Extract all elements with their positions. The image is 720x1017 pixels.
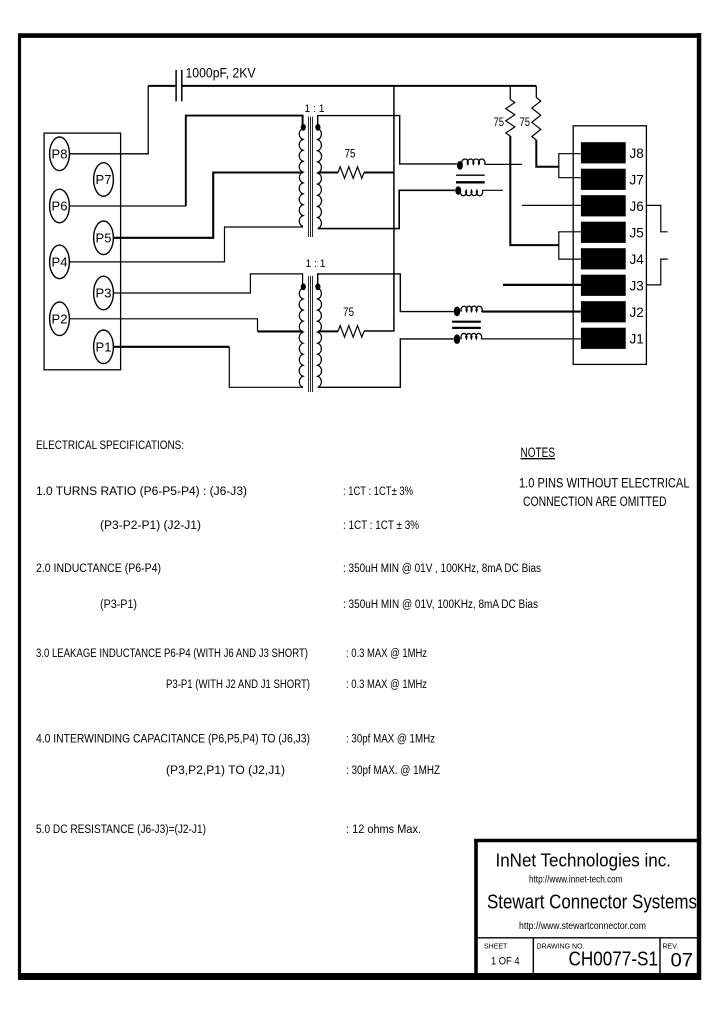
svg-text:P7: P7 bbox=[96, 172, 112, 187]
choke L1 core bbox=[456, 175, 485, 182]
svg-text:: 30pf MAX @ 1MHz: : 30pf MAX @ 1MHz bbox=[346, 734, 435, 746]
wire L2 winding2 out to J1 bbox=[481, 338, 581, 340]
pin P5 bbox=[94, 221, 114, 255]
wire R4 to bracket J8-J7 bbox=[536, 140, 559, 167]
wire R4 top lead bbox=[535, 86, 537, 98]
wire T2 secondary center tap bbox=[318, 330, 338, 332]
wire L1 winding1 out bbox=[485, 163, 522, 165]
svg-text:1.0 PINS WITHOUT ELECTRICAL: 1.0 PINS WITHOUT ELECTRICAL bbox=[519, 476, 690, 491]
pin J1 bbox=[581, 328, 644, 349]
wire R3 to bracket J5-J4 bbox=[510, 136, 559, 245]
svg-text:75: 75 bbox=[494, 115, 505, 129]
connector J box bbox=[573, 126, 646, 365]
svg-text:InNet Technologies inc.: InNet Technologies inc. bbox=[496, 850, 672, 871]
wire P5 to T1 primary center tap bbox=[113, 173, 303, 238]
capacitor C1 1000pF 2KV bbox=[176, 70, 182, 101]
connector P box bbox=[44, 133, 121, 370]
phase dot L1 winding 1 bbox=[457, 161, 463, 170]
transformer T2 bbox=[299, 276, 321, 392]
choke L1 winding 2 bbox=[460, 190, 482, 195]
wire J3 right bracket stub bbox=[646, 259, 667, 285]
pin P3 bbox=[94, 276, 114, 310]
svg-text:4.0 INTERWINDING CAPACITANCE (: 4.0 INTERWINDING CAPACITANCE (P6,P5,P4) … bbox=[36, 734, 310, 746]
svg-text:(P3-P1): (P3-P1) bbox=[100, 599, 137, 611]
wire bracket J5-J4 bbox=[559, 232, 581, 259]
svg-text:(P3-P2-P1) (J2-J1): (P3-P2-P1) (J2-J1) bbox=[100, 520, 201, 532]
wire T1 secondary center tap bbox=[318, 172, 338, 174]
phase dot T1 secondary bbox=[315, 124, 320, 131]
svg-text:75: 75 bbox=[343, 305, 354, 319]
svg-text:P1: P1 bbox=[96, 339, 112, 354]
wire to J3 bbox=[503, 284, 581, 286]
pin P6 bbox=[50, 189, 70, 223]
wire bracket J8-J7 bbox=[559, 154, 581, 178]
svg-text:: 1CT : 1CT± 3%: : 1CT : 1CT± 3% bbox=[343, 486, 413, 498]
pin J8 bbox=[581, 142, 644, 163]
svg-text:(P3,P2,P1) TO (J2,J1): (P3,P2,P1) TO (J2,J1) bbox=[166, 765, 285, 777]
wire P3 to T2 primary top bbox=[113, 274, 302, 293]
wire P4 to T1 primary bottom bbox=[69, 227, 303, 262]
wire L1 winding2 out bbox=[482, 189, 503, 191]
svg-text:http://www.innet-tech.com: http://www.innet-tech.com bbox=[529, 875, 623, 886]
choke L2 core bbox=[452, 322, 481, 328]
svg-text:http://www.stewartconnector.co: http://www.stewartconnector.com bbox=[519, 921, 646, 932]
wire P6 to corner bbox=[69, 205, 186, 207]
pin J5 bbox=[581, 222, 644, 243]
svg-text:: 350uH MIN @ 01V , 100KHz, 8m: : 350uH MIN @ 01V , 100KHz, 8mA DC Bias bbox=[343, 563, 541, 575]
pin P4 bbox=[50, 245, 70, 279]
phase dot T1 primary bbox=[301, 124, 306, 131]
resistor R1 75 (T1 termination) bbox=[338, 167, 364, 179]
svg-text:CH0077-S1: CH0077-S1 bbox=[569, 949, 659, 971]
svg-text:P5: P5 bbox=[96, 230, 112, 245]
pin J6 bbox=[581, 195, 644, 216]
pin J2 bbox=[581, 301, 644, 322]
pin J7 bbox=[581, 169, 644, 190]
choke L2 winding 1 bbox=[461, 306, 482, 311]
svg-text:5.0 DC RESISTANCE (J6-J3)=(J2-: 5.0 DC RESISTANCE (J6-J3)=(J2-J1) bbox=[36, 824, 206, 836]
wire J6 right bracket stub bbox=[646, 205, 667, 231]
pin P7 bbox=[94, 163, 114, 197]
wire P8 to C1 bbox=[69, 86, 148, 154]
svg-text:75: 75 bbox=[345, 147, 356, 161]
svg-text:P8: P8 bbox=[52, 146, 68, 161]
choke L1 winding 1 bbox=[462, 159, 485, 164]
svg-text:3.0 LEAKAGE INDUCTANCE P6-P4 (: 3.0 LEAKAGE INDUCTANCE P6-P4 (WITH J6 AN… bbox=[36, 648, 308, 660]
svg-text:SHEET: SHEET bbox=[484, 944, 508, 951]
wire P1 to corner bbox=[113, 346, 229, 348]
svg-text:J6: J6 bbox=[630, 199, 644, 214]
svg-text:J3: J3 bbox=[630, 278, 644, 293]
svg-text:: 1CT : 1CT ± 3%: : 1CT : 1CT ± 3% bbox=[343, 520, 419, 532]
wire corner to T2 primary bottom bbox=[229, 347, 303, 388]
svg-text:P3-P1 (WITH J2 AND J1 SHORT): P3-P1 (WITH J2 AND J1 SHORT) bbox=[166, 679, 310, 691]
wire C1 left lead bbox=[148, 85, 175, 87]
svg-text:J5: J5 bbox=[630, 225, 644, 240]
pin P1 bbox=[94, 330, 114, 364]
svg-text:NOTES: NOTES bbox=[521, 445, 556, 460]
svg-text:: 30pf MAX. @ 1MHZ: : 30pf MAX. @ 1MHZ bbox=[346, 765, 440, 777]
wire T1 secondary top bbox=[318, 116, 457, 164]
svg-text:P4: P4 bbox=[52, 254, 68, 269]
svg-text:ELECTRICAL SPECIFICATIONS:: ELECTRICAL SPECIFICATIONS: bbox=[36, 440, 184, 452]
pin J4 bbox=[581, 248, 644, 269]
wire C1 to resistors top bus bbox=[182, 85, 536, 87]
pin P8 bbox=[50, 137, 70, 171]
wire L2 winding1 out to J2 bbox=[482, 311, 581, 313]
resistor R2 75 (T2 termination) bbox=[338, 326, 364, 338]
phase dot T2 secondary bbox=[315, 283, 320, 290]
svg-text:1.0 TURNS RATIO (P6-P5-P4) : (: 1.0 TURNS RATIO (P6-P5-P4) : (J6-J3) bbox=[36, 486, 247, 498]
wire T2 secondary bottom bbox=[318, 339, 453, 387]
wire R3 top lead bbox=[509, 86, 511, 100]
phase dot T2 primary bbox=[301, 283, 306, 290]
svg-text:P2: P2 bbox=[52, 311, 68, 326]
wire corner to T2 primary center tap bbox=[258, 330, 303, 332]
resistor R4 75 (J8-J7 feed) bbox=[532, 98, 541, 141]
wire P2 to corner bbox=[69, 319, 257, 332]
svg-text:J2: J2 bbox=[630, 305, 644, 320]
svg-text:CONNECTION ARE OMITTED: CONNECTION ARE OMITTED bbox=[523, 494, 667, 509]
pin P2 bbox=[50, 302, 70, 336]
choke L2 winding 2 bbox=[461, 333, 482, 338]
pin J3 bbox=[581, 275, 644, 296]
svg-text:: 0.3 MAX @ 1MHz: : 0.3 MAX @ 1MHz bbox=[346, 679, 427, 691]
transformer T1 bbox=[299, 117, 321, 238]
svg-text:J4: J4 bbox=[630, 252, 645, 267]
svg-text:Stewart Connector Systems: Stewart Connector Systems bbox=[487, 892, 697, 914]
svg-text:: 0.3 MAX @ 1MHz: : 0.3 MAX @ 1MHz bbox=[346, 648, 427, 660]
wire node A vertical (C1 bus to R2) bbox=[364, 86, 394, 331]
title block bbox=[474, 839, 699, 976]
svg-text:: 12 ohms Max.: : 12 ohms Max. bbox=[346, 824, 421, 836]
svg-text:P6: P6 bbox=[52, 199, 68, 214]
svg-text:J1: J1 bbox=[630, 331, 644, 346]
svg-text:REV.: REV. bbox=[663, 944, 679, 951]
svg-text:75: 75 bbox=[520, 115, 531, 129]
svg-text:1000pF, 2KV: 1000pF, 2KV bbox=[186, 66, 256, 81]
svg-text:07: 07 bbox=[671, 951, 694, 972]
wire T2 secondary top bbox=[318, 274, 454, 312]
svg-text:2.0 INDUCTANCE (P6-P4): 2.0 INDUCTANCE (P6-P4) bbox=[36, 563, 161, 575]
phase dot L1 winding 2 bbox=[455, 186, 461, 195]
svg-text:1 : 1: 1 : 1 bbox=[306, 258, 326, 270]
phase dot L2 winding 2 bbox=[454, 334, 461, 344]
wire to J6 bbox=[522, 204, 581, 206]
phase dot L2 winding 1 bbox=[454, 307, 461, 317]
wire corner to T1 primary top bbox=[186, 116, 303, 206]
svg-text:1 OF 4: 1 OF 4 bbox=[491, 956, 520, 968]
svg-text:J7: J7 bbox=[630, 172, 644, 187]
svg-text:1 : 1: 1 : 1 bbox=[305, 103, 325, 115]
svg-text:: 350uH MIN @ 01V, 100KHz, 8mA: : 350uH MIN @ 01V, 100KHz, 8mA DC Bias bbox=[343, 599, 538, 611]
wire R1 to node A bus bbox=[364, 172, 394, 174]
svg-text:J8: J8 bbox=[630, 146, 644, 161]
wire T1 secondary bottom bbox=[318, 190, 455, 228]
svg-text:P3: P3 bbox=[96, 286, 112, 301]
resistor R3 75 (J5-J4 feed) bbox=[506, 100, 515, 137]
